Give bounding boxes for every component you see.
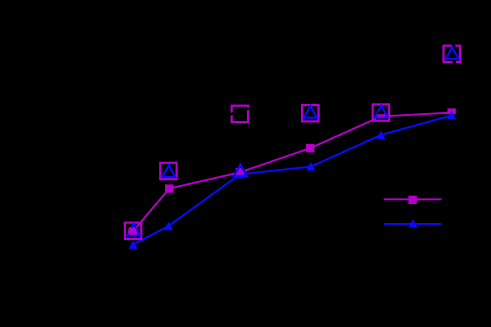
wire blue polyline [133,115,451,244]
filled triangle markers [129,240,138,249]
wire magenta polyline [133,113,452,232]
legend entry 2: blue line + triangle [384,219,442,228]
series 3: open magenta squares [125,46,460,239]
legend entry 1: magenta line + square [384,196,442,204]
black overlay notches (invisible black line crossing open squares) [229,44,454,115]
black overlay atop filled square P5 (invisible black marker) [378,112,385,115]
black overlay atop filled square P6 bottom (invisible black marker) [447,114,456,117]
series 2: blue line with filled triangles [129,111,457,249]
magenta filled square P1 visible as dome over open triangle [128,228,136,235]
black gap below filled square P5 [376,119,385,121]
purple blend where blue triangle base crosses filled square P5 [377,116,384,118]
magenta square top visible over blue at crossing point P3 [236,168,244,174]
series 1: magenta line with filled squares [129,108,456,235]
series 4: open blue triangles [127,47,458,235]
filled square markers [129,227,137,235]
